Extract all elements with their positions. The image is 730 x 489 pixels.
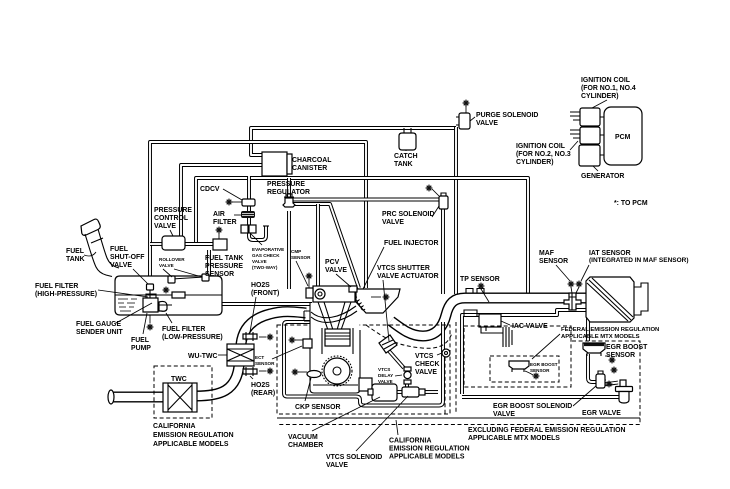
fuel tank body bbox=[115, 276, 222, 315]
svg-text:VALVE: VALVE bbox=[252, 259, 267, 264]
svg-text:AIR: AIR bbox=[213, 211, 225, 218]
purge solenoid valve body bbox=[459, 113, 470, 129]
star EGR boost right bbox=[609, 357, 616, 364]
svg-text:EGR BOOST: EGR BOOST bbox=[530, 362, 558, 367]
svg-text:PRESSURE: PRESSURE bbox=[154, 207, 192, 214]
svg-text:SENSOR: SENSOR bbox=[606, 352, 635, 359]
dashed box TWC california bbox=[154, 366, 212, 418]
VTCS bellows bbox=[355, 297, 365, 310]
wire regulator to PRC hose bbox=[292, 198, 440, 202]
wire california loop bbox=[284, 322, 443, 406]
svg-text:(FOR NO.2, NO.3: (FOR NO.2, NO.3 bbox=[516, 151, 571, 158]
svg-text:SENSOR: SENSOR bbox=[539, 258, 568, 265]
star below fuel pump bbox=[147, 324, 154, 331]
svg-text:VALVE: VALVE bbox=[415, 369, 437, 376]
CMP sensor body bbox=[306, 288, 313, 298]
svg-text:EGR BOOST: EGR BOOST bbox=[606, 344, 648, 351]
CKP sensor body bbox=[307, 371, 321, 378]
intake runners bbox=[318, 302, 351, 330]
right box top notch bbox=[464, 310, 477, 316]
svg-text:CYLINDER): CYLINDER) bbox=[516, 159, 554, 166]
svg-text:GAS CHECK: GAS CHECK bbox=[252, 253, 280, 258]
ignition coil box 1 bbox=[580, 108, 600, 126]
dashed federal box B inner bbox=[490, 356, 559, 382]
EGR boost sensor inner body bbox=[509, 361, 529, 369]
fuel shut-off valve ball bbox=[147, 284, 154, 290]
wire WU-TWC to engine pipe bbox=[241, 312, 306, 344]
svg-text:*: TO PCM: *: TO PCM bbox=[614, 200, 648, 207]
svg-text:VALVE: VALVE bbox=[110, 262, 132, 269]
pressure regulator body bbox=[283, 198, 295, 207]
dashed box california big bbox=[277, 325, 450, 414]
star EGR boost inner bbox=[533, 373, 540, 380]
air filter body bbox=[241, 211, 255, 218]
svg-text:FUEL: FUEL bbox=[66, 248, 84, 255]
svg-text:EVAPORATIVE: EVAPORATIVE bbox=[252, 247, 284, 252]
svg-text:CKP SENSOR: CKP SENSOR bbox=[295, 404, 340, 411]
EGR valve body bbox=[620, 380, 626, 387]
svg-text:HO2S: HO2S bbox=[251, 382, 270, 389]
svg-text:VALVE: VALVE bbox=[325, 267, 347, 274]
svg-text:(FRONT): (FRONT) bbox=[251, 290, 279, 297]
star HO2S rear bbox=[267, 368, 274, 375]
head gasket curves bbox=[311, 306, 357, 322]
svg-text:FUEL INJECTOR: FUEL INJECTOR bbox=[384, 240, 439, 247]
svg-text:IGNITION COIL: IGNITION COIL bbox=[581, 77, 630, 84]
svg-text:GENERATOR: GENERATOR bbox=[581, 173, 624, 180]
wire regulator up hose bbox=[287, 178, 291, 199]
dashed vertical pair bbox=[455, 322, 457, 413]
wire fuel rail drop hose bbox=[316, 204, 320, 288]
wire purge valve down hose bbox=[454, 127, 458, 294]
wire fuel feed line from tank bbox=[222, 302, 312, 306]
fuel level line bbox=[115, 294, 222, 296]
fuel liquid hatching bbox=[118, 299, 137, 311]
svg-text:(TWO-WAY): (TWO-WAY) bbox=[252, 265, 278, 270]
svg-text:VALVE: VALVE bbox=[159, 263, 174, 268]
evaporative two-way valve body bbox=[241, 225, 248, 233]
coil wires bbox=[570, 112, 580, 138]
wire intake duct bbox=[391, 298, 586, 336]
fuel tank pressure sensor body bbox=[213, 239, 227, 250]
svg-text:(REAR): (REAR) bbox=[251, 390, 275, 397]
svg-text:DELAY: DELAY bbox=[378, 373, 393, 378]
svg-text:CATCH: CATCH bbox=[394, 153, 418, 160]
star solenoid A bbox=[611, 367, 618, 374]
crank gear bbox=[324, 358, 350, 384]
star plenum bbox=[383, 294, 390, 301]
svg-text:FUEL: FUEL bbox=[110, 246, 128, 253]
wire vacuum chamber to solenoid bbox=[396, 390, 404, 394]
HO2S front body bbox=[243, 334, 257, 339]
wire VTCS actuator to delay valve bbox=[389, 351, 404, 368]
svg-text:PCM: PCM bbox=[615, 134, 631, 141]
svg-text:TWC: TWC bbox=[171, 376, 187, 383]
svg-text:VALVE: VALVE bbox=[382, 219, 404, 226]
ECT sensor body bbox=[303, 339, 312, 348]
air cleaner right duct bbox=[634, 283, 648, 315]
svg-text:MAF: MAF bbox=[539, 250, 554, 257]
svg-text:VALVE: VALVE bbox=[326, 462, 348, 469]
svg-text:FILTER: FILTER bbox=[213, 219, 237, 226]
PRC solenoid valve body bbox=[439, 196, 448, 209]
svg-text:VALVE ACTUATOR: VALVE ACTUATOR bbox=[377, 273, 439, 280]
IAC valve body bbox=[479, 314, 501, 327]
svg-text:SENSOR: SENSOR bbox=[530, 368, 550, 373]
VTCS check valve body bbox=[442, 349, 450, 357]
svg-text:CONTROL: CONTROL bbox=[154, 215, 188, 222]
svg-text:HO2S: HO2S bbox=[251, 282, 270, 289]
wire regulator down hose bbox=[287, 211, 291, 289]
PCV valve body bbox=[349, 286, 357, 292]
exhaust pipe open end bbox=[108, 390, 114, 404]
wire hidden intake dashed hose bbox=[366, 325, 452, 348]
wire long bottom hose line bbox=[277, 417, 640, 419]
svg-text:PRC SOLENOID: PRC SOLENOID bbox=[382, 211, 434, 218]
cylinder walls bbox=[322, 328, 353, 354]
svg-text:PRESSURE: PRESSURE bbox=[267, 181, 305, 188]
svg-text:SENSOR: SENSOR bbox=[205, 271, 234, 278]
svg-text:FUEL TANK: FUEL TANK bbox=[205, 255, 243, 262]
svg-text:CALIFORNIA: CALIFORNIA bbox=[389, 438, 432, 445]
wire rollover valve riser bbox=[207, 250, 211, 276]
wire check valve dashed line bbox=[444, 357, 446, 414]
svg-text:CHECK: CHECK bbox=[415, 361, 440, 368]
star HO2S front bbox=[267, 334, 274, 341]
pressure control valve body bbox=[162, 236, 185, 250]
ignition coil box 2 bbox=[580, 127, 600, 144]
VTCS shutter actuator tilted bbox=[379, 335, 397, 353]
wire pressure control valve left stub bbox=[150, 242, 163, 246]
wire EGR solenoid to EGR valve bbox=[604, 383, 618, 385]
svg-text:(HIGH-PRESSURE): (HIGH-PRESSURE) bbox=[35, 291, 97, 298]
surge tank plenum bbox=[356, 289, 400, 313]
wire solenoid right stub bbox=[422, 390, 438, 394]
svg-text:(FOR NO.1, NO.4: (FOR NO.1, NO.4 bbox=[581, 85, 636, 92]
svg-text:EGR BOOST SOLENOID: EGR BOOST SOLENOID bbox=[493, 403, 572, 410]
charcoal canister bbox=[262, 152, 287, 176]
star MAF pair bbox=[568, 281, 575, 288]
svg-text:VTCS SHUTTER: VTCS SHUTTER bbox=[377, 265, 430, 272]
svg-text:REGULATOR: REGULATOR bbox=[267, 189, 310, 196]
svg-text:VALVE: VALVE bbox=[476, 120, 498, 127]
star CKP bbox=[292, 369, 299, 376]
svg-text:VTCS: VTCS bbox=[415, 353, 434, 360]
EGR boost solenoid valve body bbox=[596, 374, 605, 388]
MAF sensor body bbox=[564, 293, 581, 310]
svg-text:(INTEGRATED IN MAF SENSOR): (INTEGRATED IN MAF SENSOR) bbox=[589, 257, 689, 264]
svg-text:FUEL FILTER: FUEL FILTER bbox=[35, 283, 78, 290]
svg-text:IAC VALVE: IAC VALVE bbox=[512, 323, 548, 330]
svg-text:CHARCOAL: CHARCOAL bbox=[292, 157, 331, 164]
svg-text:EMISSION REGULATION: EMISSION REGULATION bbox=[389, 446, 470, 453]
star PRC solenoid bbox=[426, 185, 433, 192]
svg-text:CYLINDER): CYLINDER) bbox=[581, 93, 619, 100]
wire PRC valve down hose bbox=[441, 208, 445, 294]
star fuel pump top bbox=[163, 287, 170, 294]
svg-text:CMP: CMP bbox=[291, 249, 301, 254]
svg-text:EGR VALVE: EGR VALVE bbox=[582, 410, 621, 417]
CDCV body bbox=[242, 199, 255, 206]
svg-text:EMISSION REGULATION: EMISSION REGULATION bbox=[153, 432, 234, 439]
svg-text:VTCS: VTCS bbox=[378, 367, 390, 372]
HO2S rear body bbox=[243, 369, 257, 374]
wire exhaust front pipe bbox=[112, 392, 164, 403]
svg-text:ROLLOVER: ROLLOVER bbox=[159, 257, 185, 262]
rollover valve bar bbox=[172, 277, 204, 279]
PCM box bbox=[604, 107, 642, 165]
svg-text:PRESSURE: PRESSURE bbox=[205, 263, 243, 270]
star CMP bbox=[306, 273, 313, 280]
EGR boost sensor right body bbox=[583, 343, 605, 353]
star fuel tank pressure sensor bbox=[216, 227, 223, 234]
fuel filter low-pressure inline rect bbox=[172, 292, 185, 298]
svg-text:PUMP: PUMP bbox=[131, 345, 151, 352]
svg-text:(LOW-PRESSURE): (LOW-PRESSURE) bbox=[162, 334, 223, 341]
wire purge-canister top hose bbox=[251, 128, 456, 155]
wire long y178 hose bbox=[196, 178, 528, 303]
svg-text:PCV: PCV bbox=[325, 259, 340, 266]
star solenoid B bbox=[606, 381, 613, 388]
dashed federal box A bbox=[464, 326, 571, 387]
air cleaner box bbox=[586, 277, 634, 322]
wire canister to pressure-control-valve hose bbox=[181, 165, 263, 238]
svg-text:SENDER UNIT: SENDER UNIT bbox=[76, 329, 123, 336]
piston bbox=[325, 329, 350, 346]
svg-text:VACUUM: VACUUM bbox=[288, 434, 318, 441]
two-way valve open pipe flange bbox=[263, 225, 269, 227]
svg-text:PURGE SOLENOID: PURGE SOLENOID bbox=[476, 112, 538, 119]
svg-text:VALVE: VALVE bbox=[493, 411, 515, 418]
wire right box bottom line bbox=[462, 395, 621, 399]
svg-text:IGNITION COIL: IGNITION COIL bbox=[516, 143, 565, 150]
vacuum chamber body bbox=[372, 384, 397, 401]
wire right box top line bbox=[462, 310, 588, 394]
star ECT bbox=[289, 337, 296, 344]
wire evap tank-to-intake hose bbox=[150, 142, 366, 288]
cam cap circles bbox=[315, 289, 325, 299]
wire EGR boost sensor stem bbox=[588, 354, 596, 382]
TWC converter bbox=[163, 383, 197, 412]
pcm connector stubs bbox=[600, 117, 604, 155]
star TP sensor bbox=[478, 283, 485, 290]
fuel pump assembly bbox=[143, 298, 158, 312]
svg-text:FEDERAL EMISSION REGULATION: FEDERAL EMISSION REGULATION bbox=[561, 327, 659, 333]
svg-text:TP SENSOR: TP SENSOR bbox=[460, 276, 500, 283]
svg-text:APPLICABLE MODELS: APPLICABLE MODELS bbox=[153, 441, 229, 448]
svg-text:APPLICABLE MODELS: APPLICABLE MODELS bbox=[389, 454, 465, 461]
svg-text:CALIFORNIA: CALIFORNIA bbox=[153, 423, 196, 430]
svg-text:FUEL GAUGE: FUEL GAUGE bbox=[76, 321, 121, 328]
svg-text:FUEL: FUEL bbox=[131, 337, 149, 344]
generator box bbox=[579, 145, 600, 166]
valve cover bbox=[313, 286, 355, 302]
VTCS solenoid valve body bbox=[402, 387, 419, 397]
svg-text:CDCV: CDCV bbox=[200, 186, 220, 193]
svg-text:SHUT-OFF: SHUT-OFF bbox=[110, 254, 144, 261]
dashed right box C bbox=[277, 341, 640, 425]
svg-text:APPLICABLE MTX MODELS: APPLICABLE MTX MODELS bbox=[468, 435, 560, 442]
WU-TWC converter bbox=[227, 344, 254, 366]
engine block outline bbox=[310, 302, 360, 393]
wire delay valve to solenoid bbox=[405, 384, 409, 389]
duct bumps bbox=[466, 289, 484, 294]
svg-text:CHAMBER: CHAMBER bbox=[288, 442, 323, 449]
svg-text:TANK: TANK bbox=[394, 161, 413, 168]
catch tank body bbox=[399, 133, 416, 150]
svg-text:VTCS SOLENOID: VTCS SOLENOID bbox=[326, 454, 382, 461]
star purge solenoid bbox=[463, 100, 470, 107]
fuel tank filler neck bbox=[81, 219, 100, 235]
svg-text:WU-TWC: WU-TWC bbox=[188, 353, 217, 360]
star CDCV bbox=[226, 199, 233, 206]
svg-text:TANK: TANK bbox=[66, 256, 85, 263]
svg-text:VALVE: VALVE bbox=[378, 379, 393, 384]
wire pressure control valve right stub bbox=[183, 242, 214, 246]
svg-text:APPLICABLE MTX MODELS: APPLICABLE MTX MODELS bbox=[561, 334, 640, 340]
svg-text:CANISTER: CANISTER bbox=[292, 165, 327, 172]
svg-text:SENSOR: SENSOR bbox=[255, 361, 275, 366]
wire regulator diagonal fuel hose bbox=[292, 204, 359, 288]
svg-text:VALVE: VALVE bbox=[154, 223, 176, 230]
svg-text:ECT: ECT bbox=[255, 355, 264, 360]
svg-text:IAT SENSOR: IAT SENSOR bbox=[589, 250, 631, 257]
svg-text:EXCLUDING FEDERAL EMISSION REG: EXCLUDING FEDERAL EMISSION REGULATION bbox=[468, 427, 625, 434]
wire TWC to WU-TWC pipe bbox=[196, 366, 239, 396]
svg-text:SENSOR: SENSOR bbox=[291, 255, 311, 260]
wire CDCV column bbox=[249, 176, 266, 240]
engine group bbox=[289, 273, 400, 393]
svg-text:FUEL FILTER: FUEL FILTER bbox=[162, 326, 205, 333]
VTCS delay valve body bbox=[404, 367, 411, 371]
